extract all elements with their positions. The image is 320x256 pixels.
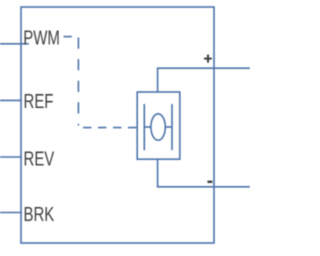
svg-text:PWM: PWM — [23, 27, 60, 50]
svg-text:BRK: BRK — [24, 203, 55, 226]
svg-text:REV: REV — [24, 148, 55, 171]
svg-text:REF: REF — [24, 90, 54, 113]
